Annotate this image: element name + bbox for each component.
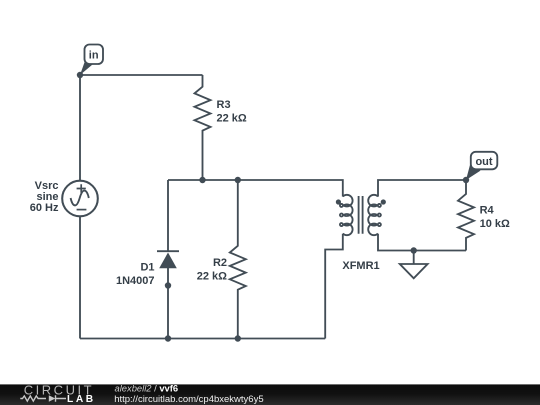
svg-text:out: out <box>475 156 492 168</box>
junction dot R2 top <box>235 177 241 183</box>
resistor R4 <box>458 180 474 251</box>
junction dot R2 bottom rail <box>235 335 241 341</box>
svg-text:http://circuitlab.com/cp4bxekw: http://circuitlab.com/cp4bxekwty6y5 <box>114 394 263 405</box>
wire top from node in to R3 top <box>80 74 203 76</box>
junction dot R3 bottom <box>199 177 205 183</box>
net flag out <box>466 152 497 180</box>
svg-text:XFMR1: XFMR1 <box>342 260 379 272</box>
junction dot below D1 <box>165 282 171 288</box>
svg-text:alexbell2 / vvf6: alexbell2 / vvf6 <box>115 383 179 394</box>
svg-text:in: in <box>89 50 99 62</box>
transformer XFMR1 <box>336 195 386 235</box>
wire transformer secondary bottom rail <box>378 234 466 251</box>
svg-text:R3: R3 <box>217 99 231 111</box>
wire bottom rail <box>80 338 325 340</box>
svg-text:R2: R2 <box>213 257 227 269</box>
svg-text:60 Hz: 60 Hz <box>30 202 59 214</box>
svg-text:22 kΩ: 22 kΩ <box>197 270 227 282</box>
footer credit text <box>114 383 263 405</box>
diode D1 <box>157 251 179 268</box>
label D1 1N4007 <box>116 262 155 287</box>
svg-text:22 kΩ: 22 kΩ <box>217 112 247 124</box>
wire D1 branch lower <box>167 268 169 339</box>
label R2 22 kOhm <box>197 257 227 282</box>
net flag in <box>80 45 103 76</box>
label R3 22 kOhm <box>217 99 247 124</box>
wire from Vsrc bottom to bottom-left corner <box>79 216 81 339</box>
junction dot D1 bottom rail <box>165 335 171 341</box>
wire left from node in down to Vsrc top <box>79 75 81 181</box>
svg-text:10 kΩ: 10 kΩ <box>480 218 510 230</box>
resistor R3 <box>195 75 211 180</box>
wire middle horizontal from D1 branch to transformer primary top <box>168 180 343 197</box>
wire transformer secondary top to node out <box>378 180 466 197</box>
ground <box>400 251 428 279</box>
node out junction dot <box>463 177 469 183</box>
svg-text:LAB: LAB <box>67 394 96 405</box>
node in junction dot <box>77 72 83 78</box>
svg-text:R4: R4 <box>480 204 495 216</box>
wire from bottom rail up to transformer primary bottom <box>325 234 343 339</box>
wire D1 branch upper <box>167 180 169 251</box>
CircuitLab logo <box>20 382 95 405</box>
svg-text:1N4007: 1N4007 <box>116 275 155 287</box>
svg-text:D1: D1 <box>140 262 154 274</box>
resistor R2 <box>230 180 246 339</box>
label R4 10 kOhm <box>480 204 510 230</box>
label Vsrc sine 60 Hz <box>30 180 59 214</box>
junction dot ground node <box>411 247 417 253</box>
voltage source Vsrc <box>62 181 98 217</box>
